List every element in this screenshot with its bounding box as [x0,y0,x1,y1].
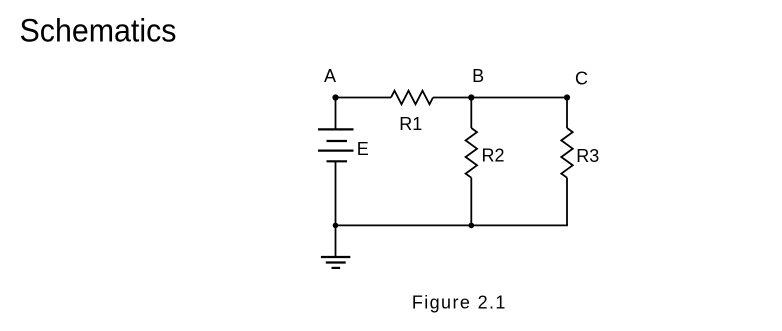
node C junction dot [564,94,570,100]
svg-text:R3: R3 [576,146,599,166]
node B junction dot [468,94,474,100]
wire to ground [335,225,337,257]
wire node B down to R2 [470,98,472,129]
ground [321,257,350,268]
resistor R3 [561,128,572,178]
bottom-left junction dot [333,223,339,229]
svg-text:A: A [324,66,336,86]
wire node B to node C [471,97,567,99]
svg-text:R1: R1 [399,114,422,134]
resistor R2 [466,128,477,178]
svg-text:E: E [357,139,369,159]
wire node A to R1 [336,97,392,99]
battery E [318,129,354,161]
wire R1 to node B [433,97,471,99]
wire R3 to bottom rail [566,178,568,226]
resistor R1 [391,91,433,105]
svg-text:C: C [575,69,588,89]
wire node A down to battery [335,98,337,130]
wire R2 to bottom rail [470,178,472,226]
svg-text:Schematics: Schematics [20,13,177,49]
svg-text:R2: R2 [482,146,505,166]
bottom node B junction dot [469,223,475,229]
wire battery to bottom rail [335,161,337,225]
wire node C down to R3 [566,98,568,129]
node A junction dot [332,94,338,100]
svg-text:B: B [472,66,484,86]
bottom rail wire [336,224,568,226]
